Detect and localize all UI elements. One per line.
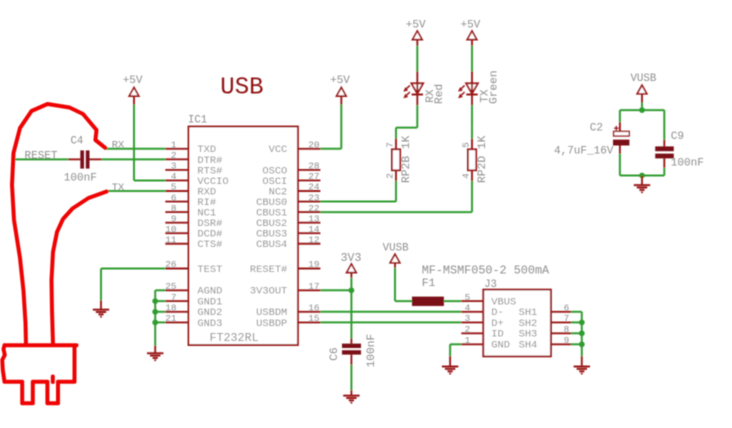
svg-text:1: 1 bbox=[171, 140, 177, 151]
svg-text:21: 21 bbox=[165, 313, 177, 324]
svg-text:GND: GND bbox=[491, 340, 510, 352]
svg-text:25: 25 bbox=[165, 281, 177, 292]
svg-text:6: 6 bbox=[171, 192, 177, 203]
svg-text:C6: C6 bbox=[329, 347, 341, 360]
svg-text:16: 16 bbox=[308, 303, 320, 314]
svg-text:19: 19 bbox=[308, 259, 319, 270]
svg-text:RESET: RESET bbox=[25, 150, 58, 162]
svg-text:7: 7 bbox=[171, 292, 177, 303]
svg-text:C2: C2 bbox=[590, 122, 603, 134]
svg-text:Green: Green bbox=[489, 70, 501, 104]
svg-text:24: 24 bbox=[308, 182, 320, 193]
svg-text:VUSB: VUSB bbox=[383, 243, 409, 255]
svg-text:5: 5 bbox=[171, 182, 177, 193]
svg-text:VCC: VCC bbox=[269, 144, 288, 156]
svg-text:RP2B 1K: RP2B 1K bbox=[401, 135, 413, 183]
svg-text:26: 26 bbox=[165, 259, 177, 270]
svg-text:RESET#: RESET# bbox=[250, 264, 287, 276]
svg-text:12: 12 bbox=[308, 234, 319, 245]
svg-text:RP2D 1K: RP2D 1K bbox=[477, 135, 489, 183]
svg-text:3: 3 bbox=[171, 161, 177, 172]
svg-text:RX: RX bbox=[112, 139, 125, 151]
svg-text:1: 1 bbox=[465, 335, 471, 346]
svg-text:4: 4 bbox=[171, 171, 177, 182]
svg-text:100nF: 100nF bbox=[671, 157, 704, 169]
svg-text:13: 13 bbox=[308, 213, 320, 224]
svg-text:100nF: 100nF bbox=[64, 172, 97, 184]
svg-text:11: 11 bbox=[165, 234, 177, 245]
svg-text:FT232RL: FT232RL bbox=[210, 331, 259, 345]
svg-text:17: 17 bbox=[308, 281, 319, 292]
svg-text:3V3OUT: 3V3OUT bbox=[250, 286, 287, 298]
svg-text:18: 18 bbox=[165, 303, 177, 314]
svg-text:4: 4 bbox=[465, 303, 471, 314]
svg-text:8: 8 bbox=[564, 324, 570, 335]
svg-text:USBDP: USBDP bbox=[256, 318, 287, 330]
svg-text:9: 9 bbox=[171, 213, 177, 224]
svg-text:7: 7 bbox=[564, 313, 570, 324]
svg-text:F1: F1 bbox=[422, 278, 436, 290]
svg-text:6: 6 bbox=[564, 303, 570, 314]
svg-text:+5V: +5V bbox=[330, 75, 350, 87]
svg-text:4,7uF_16V: 4,7uF_16V bbox=[554, 145, 614, 157]
svg-text:2: 2 bbox=[171, 150, 177, 161]
svg-text:+5V: +5V bbox=[123, 75, 143, 87]
svg-text:+5V: +5V bbox=[406, 20, 426, 32]
svg-text:CTS#: CTS# bbox=[197, 239, 222, 251]
svg-text:4: 4 bbox=[461, 173, 472, 179]
svg-text:3: 3 bbox=[465, 313, 471, 324]
svg-text:C9: C9 bbox=[671, 131, 684, 143]
svg-text:MF-MSMF050-2 500mA: MF-MSMF050-2 500mA bbox=[422, 263, 550, 277]
svg-text:CBUS4: CBUS4 bbox=[256, 239, 287, 251]
svg-text:27: 27 bbox=[308, 171, 319, 182]
svg-text:5: 5 bbox=[465, 292, 471, 303]
svg-text:GND3: GND3 bbox=[197, 318, 222, 330]
svg-text:Red: Red bbox=[434, 84, 446, 104]
svg-text:28: 28 bbox=[308, 161, 320, 172]
svg-text:9: 9 bbox=[564, 335, 570, 346]
svg-text:C4: C4 bbox=[71, 135, 84, 147]
svg-text:3V3: 3V3 bbox=[341, 252, 362, 265]
svg-text:+5V: +5V bbox=[460, 20, 480, 32]
svg-text:22: 22 bbox=[308, 203, 319, 214]
svg-text:IC1: IC1 bbox=[188, 115, 207, 127]
svg-text:J3: J3 bbox=[484, 279, 497, 291]
svg-text:5: 5 bbox=[461, 142, 472, 148]
svg-text:23: 23 bbox=[308, 192, 320, 203]
svg-text:14: 14 bbox=[308, 224, 320, 235]
svg-text:2: 2 bbox=[385, 173, 396, 179]
svg-text:8: 8 bbox=[171, 203, 177, 214]
svg-text:2: 2 bbox=[465, 324, 471, 335]
svg-text:7: 7 bbox=[385, 142, 396, 148]
svg-text:TX: TX bbox=[112, 182, 125, 194]
svg-text:TEST: TEST bbox=[197, 264, 222, 276]
svg-text:20: 20 bbox=[308, 140, 320, 151]
svg-text:100nF: 100nF bbox=[366, 334, 378, 368]
svg-text:VUSB: VUSB bbox=[630, 73, 656, 85]
svg-text:10: 10 bbox=[165, 224, 177, 235]
svg-text:15: 15 bbox=[308, 313, 320, 324]
svg-text:USB: USB bbox=[220, 75, 263, 102]
svg-text:SH4: SH4 bbox=[519, 340, 538, 352]
